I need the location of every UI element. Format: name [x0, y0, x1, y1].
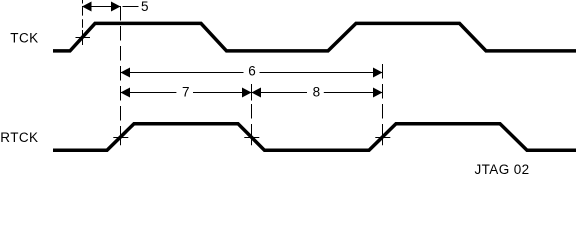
dimension arrow 7: [121, 88, 252, 98]
dimension arrow 5 (TCK edge to RTCK edge reference): [82, 2, 139, 12]
cross mark on RTCK second rising edge: [375, 129, 390, 145]
RTCK waveform: [53, 124, 576, 151]
svg-text:6: 6: [248, 64, 256, 79]
dashed reference line at RTCK second rising edge: [382, 64, 384, 145]
cross mark on RTCK first rising edge: [113, 129, 128, 145]
svg-text:RTCK: RTCK: [0, 130, 38, 145]
dimension arrow 8: [252, 88, 383, 98]
svg-text:TCK: TCK: [10, 30, 38, 45]
dimension arrow 6: [121, 68, 383, 78]
svg-text:8: 8: [313, 85, 321, 100]
svg-text:JTAG 02: JTAG 02: [475, 162, 530, 177]
svg-text:7: 7: [182, 85, 190, 100]
cross mark on TCK rising edge: [76, 30, 91, 45]
dashed reference line at RTCK first rising edge: [120, 6, 122, 145]
dashed reference line at RTCK falling edge: [251, 84, 253, 145]
TCK waveform: [53, 23, 576, 51]
junction tick between arrows 7 and 8: [251, 84, 253, 101]
dashed reference line at TCK rising edge: [82, 0, 84, 45]
svg-text:5: 5: [141, 0, 149, 14]
cross mark on RTCK falling edge: [244, 129, 259, 145]
